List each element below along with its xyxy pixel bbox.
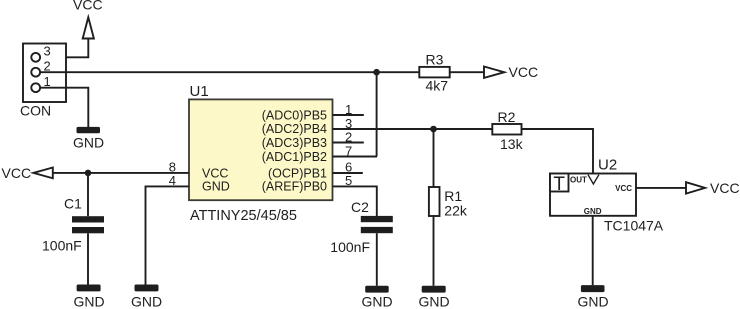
wire VCC arrow to CON pin3 (40, 39, 88, 58)
wire R2 to U2 OUT (522, 129, 594, 174)
svg-text:VCC: VCC (615, 184, 632, 193)
svg-text:GND: GND (584, 207, 602, 216)
svg-text:R2: R2 (498, 109, 516, 125)
svg-text:CON: CON (20, 103, 51, 119)
svg-text:GND: GND (577, 294, 608, 309)
ground bar under U2 (581, 285, 605, 292)
U1 pin wire 8 (VCC) (53, 172, 189, 174)
svg-text:100nF: 100nF (42, 238, 82, 254)
resistor R1 body (429, 187, 440, 216)
junction C dot (C1 tap) (85, 170, 92, 177)
junction A dot (373, 69, 380, 76)
svg-text:U1: U1 (190, 83, 209, 100)
svg-text:GND: GND (202, 180, 230, 194)
svg-text:VCC: VCC (509, 64, 539, 80)
wire C2 to ground (376, 233, 378, 286)
svg-text:VCC: VCC (202, 166, 228, 180)
svg-text:OUT: OUT (570, 176, 587, 185)
svg-text:C2: C2 (351, 199, 369, 215)
connector CON box (23, 44, 66, 103)
svg-text:22k: 22k (444, 202, 468, 218)
U2 T sensor square (550, 174, 569, 192)
svg-text:5: 5 (345, 173, 352, 188)
ground bar under C2 (365, 286, 389, 293)
connector CON pin 2 circle (31, 68, 40, 77)
power VCC arrow (right of U2) (686, 182, 705, 193)
wire U2 VCC to arrow (636, 187, 686, 189)
wire U2 GND to ground (592, 216, 594, 285)
wire junction A to R3 left (377, 71, 420, 73)
sensor U2 body (550, 174, 636, 216)
capacitor C1 top plate (72, 216, 104, 222)
svg-text:7: 7 (345, 143, 352, 158)
U1 pin stub 1 (333, 114, 364, 116)
wire R1 to ground (433, 216, 435, 286)
svg-text:(OCP)PB1: (OCP)PB1 (268, 166, 327, 180)
wire CON pin2 to junction A (40, 71, 376, 73)
svg-text:TC1047A: TC1047A (604, 217, 664, 233)
svg-text:VCC: VCC (73, 0, 103, 13)
svg-text:U2: U2 (598, 156, 617, 173)
svg-text:1: 1 (345, 102, 352, 117)
svg-text:4: 4 (169, 173, 176, 188)
svg-text:3: 3 (44, 44, 51, 59)
svg-text:100nF: 100nF (330, 239, 370, 255)
ground bar under C1 (77, 285, 101, 292)
U2 OUT arrowhead (588, 175, 599, 184)
ground bar under CON (77, 127, 101, 133)
svg-text:GND: GND (418, 293, 449, 309)
U1 pin wire 7 (333, 156, 378, 158)
svg-text:1: 1 (44, 74, 51, 89)
svg-text:(ADC1)PB2: (ADC1)PB2 (262, 150, 327, 164)
resistor R2 body (492, 124, 521, 135)
svg-text:GND: GND (131, 293, 162, 309)
svg-text:GND: GND (73, 134, 104, 150)
svg-text:VCC: VCC (710, 180, 740, 196)
svg-text:GND: GND (361, 293, 392, 309)
U1 pin wire 5 (to C2) (333, 186, 377, 216)
ground bar under U1 pin 4 (135, 285, 159, 292)
capacitor C2 bottom plate (361, 227, 393, 233)
svg-text:(ADC2)PB4: (ADC2)PB4 (262, 122, 327, 136)
connector CON pin 1 circle (31, 83, 40, 92)
svg-text:2: 2 (345, 129, 352, 144)
U1 pin stub 6 (333, 172, 363, 174)
ground bar under R1 (422, 286, 446, 293)
svg-text:ATTINY25/45/85: ATTINY25/45/85 (190, 208, 297, 224)
power VCC arrow (right of R3) (484, 67, 504, 78)
wire junction C down to C1 (87, 173, 89, 216)
wire R3 right to VCC arrow (450, 71, 484, 73)
power VCC (top left) arrow symbol (83, 17, 94, 38)
wire junction B down to R1 (433, 129, 435, 187)
svg-text:T: T (553, 174, 565, 195)
U1 pin stub 2 (333, 142, 364, 144)
capacitor C1 bottom plate (72, 227, 104, 233)
U1 pin wire 4 (GND) (146, 186, 190, 284)
svg-text:4k7: 4k7 (426, 78, 449, 94)
wire junction A down to U1 pin 7 (376, 72, 378, 156)
junction B dot (R1/R2 tap) (430, 126, 437, 133)
svg-text:C1: C1 (64, 195, 82, 211)
svg-text:(ADC0)PB5: (ADC0)PB5 (262, 108, 327, 122)
capacitor C2 top plate (361, 216, 393, 222)
svg-text:R3: R3 (426, 51, 444, 67)
wire CON pin1 to ground (40, 88, 88, 128)
op IC U1 body (189, 99, 333, 200)
connector CON pin 3 circle (31, 53, 40, 62)
svg-text:GND: GND (73, 293, 104, 309)
svg-text:13k: 13k (500, 136, 524, 152)
power VCC arrow (left, pin 8) (33, 168, 52, 179)
wire C1 to ground (87, 233, 89, 284)
resistor R3 body (419, 67, 449, 78)
svg-text:(ADC3)PB3: (ADC3)PB3 (262, 136, 327, 150)
svg-text:(AREF)PB0: (AREF)PB0 (262, 180, 327, 194)
svg-text:VCC: VCC (2, 165, 32, 181)
U1 pin wire 3 (to junction B) (333, 128, 493, 130)
